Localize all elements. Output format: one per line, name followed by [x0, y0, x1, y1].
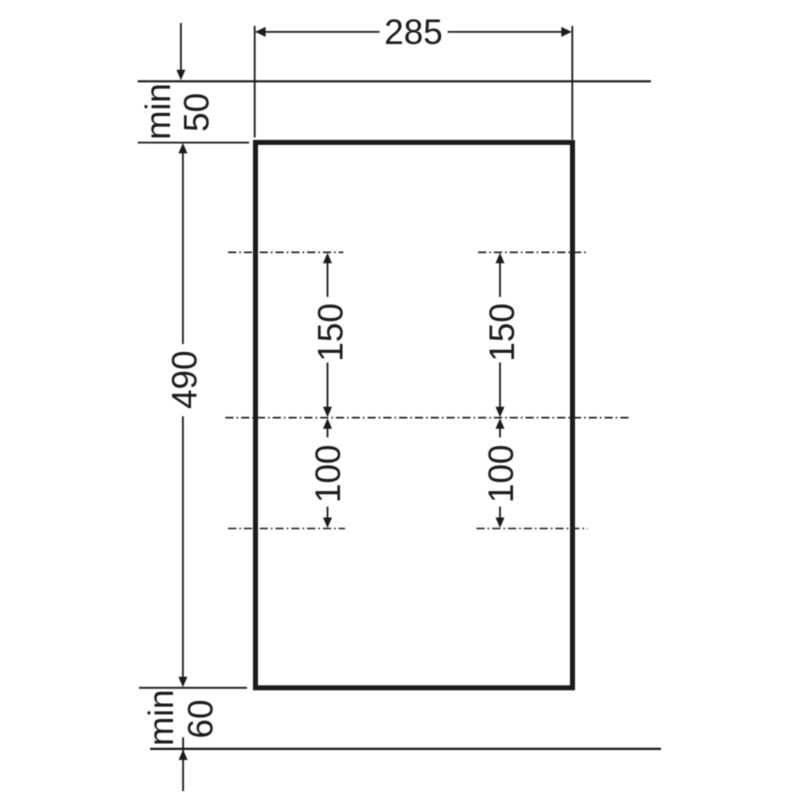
- dim 150 right upper shaft: [499, 261, 501, 297]
- svg-text:100: 100: [482, 445, 521, 503]
- dimension line 285 right segment: [448, 31, 571, 33]
- dim 150 left upper shaft: [327, 261, 329, 297]
- arrowhead min60 up: [179, 750, 188, 761]
- bolt centerline row C left segment: [228, 528, 345, 530]
- svg-text:150: 150: [483, 303, 522, 361]
- min 60 bottom arrow shaft: [182, 737, 184, 791]
- dim 150 right lower shaft: [499, 363, 501, 410]
- dimension 490 line lower segment: [182, 416, 184, 679]
- bottom worktop edge line: [150, 748, 661, 750]
- svg-text:285: 285: [384, 13, 442, 52]
- arrowhead min50 down: [176, 70, 185, 81]
- arrowhead 150 right up: [496, 253, 505, 263]
- svg-text:min: min: [142, 689, 181, 745]
- dim 100 left lower shaft: [327, 507, 329, 520]
- cutout top extension line (left of cutout): [138, 142, 249, 144]
- arrowhead 100 right up: [496, 418, 505, 429]
- arrowhead 490 bottom (down): [178, 677, 187, 688]
- svg-text:150: 150: [312, 303, 351, 361]
- bolt centerline row A right segment: [478, 251, 587, 253]
- min 50 top arrow shaft: [180, 23, 182, 71]
- arrowhead 285 right: [561, 27, 571, 37]
- svg-text:100: 100: [309, 445, 348, 503]
- bolt centerline row A left segment: [228, 251, 343, 253]
- arrowhead 100 left down: [323, 518, 332, 529]
- dimension 490 line upper segment: [182, 151, 184, 344]
- arrowhead 100 right down: [496, 518, 505, 529]
- dimension line 285 left segment: [256, 31, 380, 33]
- dim 100 left upper shaft: [327, 426, 329, 437]
- arrowhead 100 left up: [323, 418, 332, 429]
- arrowhead 490 top (up): [178, 143, 187, 154]
- dim 150 left lower shaft: [327, 363, 329, 410]
- arrowhead 150 left down: [323, 407, 332, 418]
- svg-text:50: 50: [177, 93, 216, 132]
- arrowhead 150 left up: [323, 253, 332, 263]
- bolt centerline row C right segment: [476, 528, 587, 530]
- centerline row B (middle): [225, 417, 630, 419]
- svg-text:60: 60: [181, 700, 220, 739]
- svg-text:min: min: [139, 83, 178, 139]
- dim 100 right lower shaft: [499, 507, 501, 520]
- arrowhead 285 left: [255, 27, 265, 37]
- cutout bottom extension line (left of cutout): [139, 687, 247, 689]
- extension line left for 285: [254, 26, 256, 138]
- arrowhead 150 right down: [496, 407, 505, 418]
- dim 100 right upper shaft: [499, 426, 501, 437]
- cutout rectangle (thick outline): [256, 142, 573, 687]
- svg-text:490: 490: [165, 350, 204, 408]
- extension line right for 285: [571, 26, 573, 140]
- top worktop edge line: [138, 80, 651, 82]
